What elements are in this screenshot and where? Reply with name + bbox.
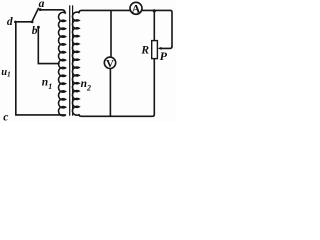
wire a to primary top	[40, 10, 65, 13]
wire R branch top	[153, 11, 155, 41]
svg-text:n1: n1	[42, 76, 52, 91]
wire wiper horizontal	[161, 47, 173, 49]
wiper arrowhead P	[158, 47, 162, 50]
svg-text:n2: n2	[81, 78, 91, 92]
svg-text:u1: u1	[1, 67, 11, 79]
ammeter A	[130, 2, 142, 14]
wire V branch bottom	[109, 68, 111, 116]
svg-text:P: P	[160, 49, 168, 63]
wire d horizontal	[16, 21, 33, 23]
wire left vertical u1 side	[15, 22, 17, 115]
primary winding n1	[59, 12, 66, 115]
contact dot b	[37, 26, 40, 29]
svg-text:c: c	[3, 111, 8, 122]
svg-text:b: b	[32, 25, 38, 37]
svg-text:d: d	[7, 16, 13, 28]
wire secondary top to right corner	[79, 10, 172, 46]
contact dot a	[39, 8, 42, 11]
svg-text:A: A	[132, 2, 141, 16]
core line right	[72, 6, 74, 115]
voltmeter V	[104, 57, 115, 68]
wire V branch top	[110, 11, 112, 57]
core line left	[69, 6, 71, 115]
wire b tap down and right	[38, 28, 59, 64]
wire bottom left (primary return)	[16, 114, 65, 116]
junction dot switch pivot	[31, 21, 34, 24]
wire R branch bottom	[153, 59, 155, 115]
secondary winding n2	[72, 12, 79, 115]
junction dot d	[14, 21, 17, 24]
resistor R body	[152, 41, 158, 59]
switch blade d to a	[32, 8, 39, 22]
junction dot at R branch top	[153, 9, 156, 12]
svg-text:R: R	[140, 45, 149, 57]
wire secondary bottom	[79, 115, 154, 117]
svg-text:a: a	[39, 0, 45, 10]
svg-text:V: V	[106, 58, 114, 70]
